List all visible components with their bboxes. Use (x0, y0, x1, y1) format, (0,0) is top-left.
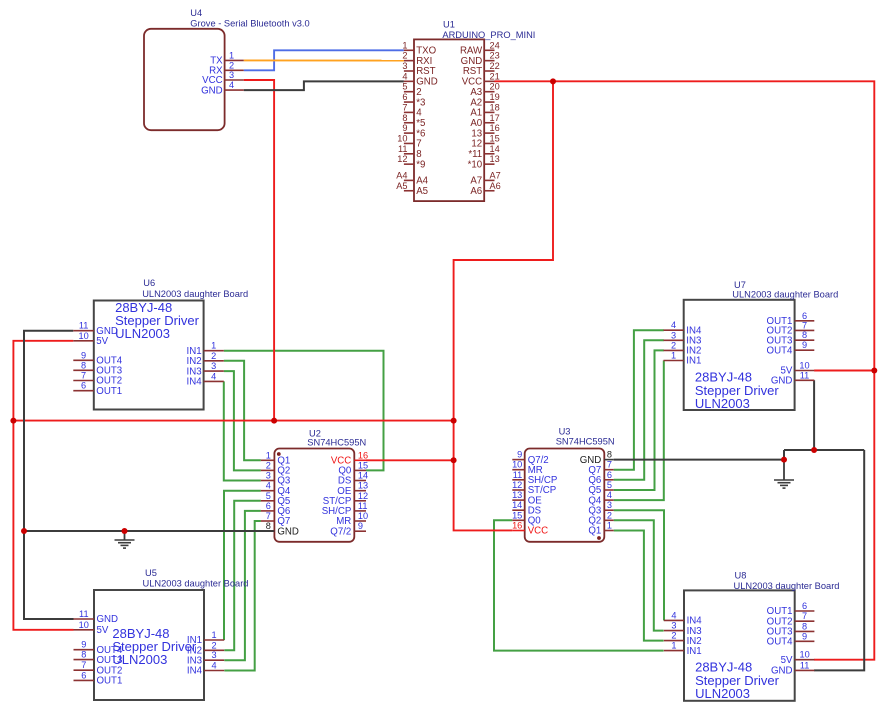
svg-text:GND: GND (461, 56, 483, 67)
svg-text:4: 4 (212, 661, 217, 671)
svg-text:15: 15 (490, 133, 500, 143)
svg-text:A4: A4 (396, 170, 407, 180)
svg-text:16: 16 (490, 123, 500, 133)
svg-text:1: 1 (229, 50, 234, 60)
svg-text:2: 2 (671, 340, 676, 350)
svg-text:4: 4 (402, 71, 407, 81)
svg-text:2: 2 (266, 460, 271, 470)
svg-text:13: 13 (512, 490, 522, 500)
svg-text:IN4: IN4 (187, 666, 203, 677)
svg-text:3: 3 (607, 500, 612, 510)
svg-text:12: 12 (358, 491, 368, 501)
svg-text:RST: RST (416, 66, 435, 77)
svg-text:A6: A6 (470, 186, 482, 197)
svg-text:ULN2003 daughter Board: ULN2003 daughter Board (734, 581, 840, 591)
svg-text:A3: A3 (470, 87, 482, 98)
svg-text:1: 1 (402, 40, 407, 50)
svg-text:8: 8 (81, 650, 86, 660)
svg-text:2: 2 (416, 87, 421, 98)
svg-text:ULN2003: ULN2003 (695, 396, 750, 411)
svg-text:8: 8 (416, 149, 421, 160)
svg-text:3: 3 (402, 61, 407, 71)
svg-text:15: 15 (358, 460, 368, 470)
svg-text:ULN2003 daughter Board: ULN2003 daughter Board (142, 289, 248, 299)
svg-text:ULN2003: ULN2003 (112, 652, 167, 667)
svg-text:1: 1 (671, 641, 676, 651)
svg-text:ULN2003: ULN2003 (695, 686, 750, 701)
svg-text:3: 3 (266, 471, 271, 481)
svg-text:4: 4 (229, 80, 234, 90)
svg-text:*11: *11 (468, 149, 482, 160)
svg-text:OUT1: OUT1 (97, 676, 123, 687)
svg-text:2: 2 (607, 510, 612, 520)
svg-text:3: 3 (671, 330, 676, 340)
svg-text:4: 4 (266, 481, 271, 491)
svg-text:A0: A0 (470, 118, 482, 129)
svg-text:4: 4 (671, 610, 676, 620)
svg-text:IN1: IN1 (687, 646, 702, 657)
svg-text:9: 9 (802, 340, 807, 350)
svg-text:11: 11 (79, 609, 89, 619)
svg-text:7: 7 (802, 611, 807, 621)
svg-text:19: 19 (490, 92, 500, 102)
svg-text:5: 5 (607, 480, 612, 490)
svg-text:*5: *5 (416, 118, 425, 129)
svg-text:VCC: VCC (528, 526, 548, 537)
svg-text:U8: U8 (735, 571, 747, 581)
svg-text:24: 24 (490, 40, 500, 50)
svg-text:2: 2 (229, 60, 234, 70)
svg-text:1: 1 (671, 351, 676, 361)
svg-text:3: 3 (212, 650, 217, 660)
svg-text:U5: U5 (145, 568, 157, 578)
svg-text:8: 8 (81, 360, 86, 370)
svg-text:10: 10 (79, 620, 89, 630)
svg-text:20: 20 (490, 82, 500, 92)
svg-text:A7: A7 (490, 170, 501, 180)
svg-text:7: 7 (81, 371, 86, 381)
svg-text:5V: 5V (781, 655, 793, 666)
svg-text:10: 10 (512, 460, 522, 470)
svg-text:A5: A5 (396, 181, 407, 191)
svg-text:Q1: Q1 (588, 526, 601, 537)
svg-text:11: 11 (800, 660, 810, 670)
svg-text:TXO: TXO (416, 46, 436, 57)
svg-text:ULN2003 daughter Board: ULN2003 daughter Board (143, 579, 249, 589)
svg-text:A2: A2 (470, 97, 482, 108)
svg-text:9: 9 (517, 450, 522, 460)
svg-text:SN74HC595N: SN74HC595N (556, 437, 615, 447)
svg-text:7: 7 (402, 102, 407, 112)
svg-text:1: 1 (607, 521, 612, 531)
svg-text:A6: A6 (490, 181, 501, 191)
svg-text:6: 6 (607, 470, 612, 480)
svg-text:OUT4: OUT4 (767, 637, 793, 648)
svg-text:*3: *3 (416, 97, 425, 108)
svg-text:5: 5 (266, 491, 271, 501)
svg-text:14: 14 (490, 144, 500, 154)
svg-text:11: 11 (513, 470, 523, 480)
svg-text:GND: GND (277, 526, 299, 537)
svg-text:2: 2 (212, 640, 217, 650)
svg-text:4: 4 (211, 371, 216, 381)
svg-text:RST: RST (463, 66, 482, 77)
svg-text:18: 18 (490, 102, 500, 112)
svg-text:13: 13 (358, 481, 368, 491)
svg-text:5V: 5V (97, 625, 109, 636)
svg-text:8: 8 (802, 330, 807, 340)
svg-text:9: 9 (81, 350, 86, 360)
svg-text:6: 6 (802, 601, 807, 611)
svg-text:7: 7 (266, 511, 271, 521)
svg-text:1: 1 (212, 630, 217, 640)
svg-text:RXI: RXI (416, 56, 432, 67)
svg-text:12: 12 (512, 480, 522, 490)
svg-text:2: 2 (671, 631, 676, 641)
svg-text:3: 3 (211, 361, 216, 371)
svg-text:SN74HC595N: SN74HC595N (307, 438, 366, 448)
svg-text:A1: A1 (470, 108, 482, 119)
svg-text:17: 17 (490, 113, 500, 123)
svg-text:11: 11 (800, 370, 810, 380)
svg-text:GND: GND (416, 77, 438, 88)
svg-text:ARDUINO_PRO_MINI: ARDUINO_PRO_MINI (442, 30, 535, 40)
svg-text:U7: U7 (734, 280, 746, 290)
svg-text:4: 4 (416, 108, 422, 119)
svg-text:U1: U1 (443, 20, 455, 30)
svg-text:6: 6 (802, 311, 807, 321)
svg-text:5V: 5V (96, 336, 108, 347)
svg-text:4: 4 (671, 320, 676, 330)
svg-text:11: 11 (358, 501, 368, 511)
svg-text:U6: U6 (143, 278, 155, 288)
svg-text:7: 7 (802, 320, 807, 330)
svg-text:16: 16 (358, 450, 368, 460)
svg-text:23: 23 (490, 51, 500, 61)
svg-text:14: 14 (358, 471, 368, 481)
svg-text:10: 10 (397, 133, 407, 143)
svg-text:*9: *9 (416, 159, 425, 170)
svg-text:12: 12 (471, 139, 482, 150)
svg-text:10: 10 (358, 511, 368, 521)
svg-text:11: 11 (398, 144, 408, 154)
svg-text:7: 7 (416, 139, 421, 150)
svg-text:A4: A4 (416, 176, 428, 187)
svg-text:OUT1: OUT1 (96, 386, 122, 397)
svg-text:6: 6 (402, 92, 407, 102)
svg-text:5: 5 (402, 82, 407, 92)
svg-text:GND: GND (97, 614, 119, 625)
svg-text:10: 10 (799, 650, 809, 660)
svg-text:21: 21 (490, 71, 500, 81)
svg-text:6: 6 (266, 501, 271, 511)
svg-text:2: 2 (211, 351, 216, 361)
svg-text:7: 7 (607, 460, 612, 470)
svg-text:22: 22 (490, 61, 500, 71)
svg-text:9: 9 (402, 123, 407, 133)
svg-text:9: 9 (81, 640, 86, 650)
svg-text:3: 3 (671, 621, 676, 631)
svg-text:6: 6 (81, 670, 86, 680)
svg-text:ULN2003: ULN2003 (115, 326, 170, 341)
svg-text:4: 4 (607, 490, 612, 500)
svg-text:IN1: IN1 (686, 356, 701, 367)
svg-text:8: 8 (607, 450, 612, 460)
svg-text:8: 8 (402, 113, 407, 123)
svg-text:A5: A5 (416, 186, 428, 197)
svg-text:9: 9 (802, 631, 807, 641)
svg-text:1: 1 (211, 341, 216, 351)
svg-text:ULN2003 daughter Board: ULN2003 daughter Board (732, 290, 838, 300)
svg-text:2: 2 (402, 51, 407, 61)
svg-text:Q7/2: Q7/2 (330, 526, 351, 537)
svg-text:GND: GND (201, 85, 223, 96)
svg-text:RAW: RAW (460, 46, 483, 57)
svg-text:15: 15 (512, 510, 522, 520)
svg-text:13: 13 (471, 128, 482, 139)
svg-text:U4: U4 (190, 8, 202, 18)
svg-text:8: 8 (266, 521, 271, 531)
svg-text:IN4: IN4 (187, 377, 203, 388)
svg-text:14: 14 (512, 500, 522, 510)
svg-text:OUT4: OUT4 (767, 345, 793, 356)
svg-text:12: 12 (397, 154, 407, 164)
svg-text:A7: A7 (470, 176, 482, 187)
svg-text:3: 3 (229, 70, 234, 80)
svg-text:VCC: VCC (462, 77, 482, 88)
svg-text:8: 8 (802, 621, 807, 631)
svg-text:10: 10 (78, 331, 88, 341)
svg-text:*6: *6 (416, 128, 425, 139)
svg-text:13: 13 (490, 154, 500, 164)
svg-text:16: 16 (512, 521, 522, 531)
svg-text:9: 9 (358, 521, 363, 531)
svg-text:10: 10 (799, 361, 809, 371)
svg-text:*10: *10 (468, 159, 483, 170)
svg-text:7: 7 (81, 660, 86, 670)
svg-text:U3: U3 (559, 427, 571, 437)
svg-text:1: 1 (266, 450, 271, 460)
svg-text:11: 11 (79, 321, 89, 331)
svg-text:6: 6 (81, 381, 86, 391)
svg-text:Grove - Serial Bluetooth v3.0: Grove - Serial Bluetooth v3.0 (190, 19, 309, 29)
